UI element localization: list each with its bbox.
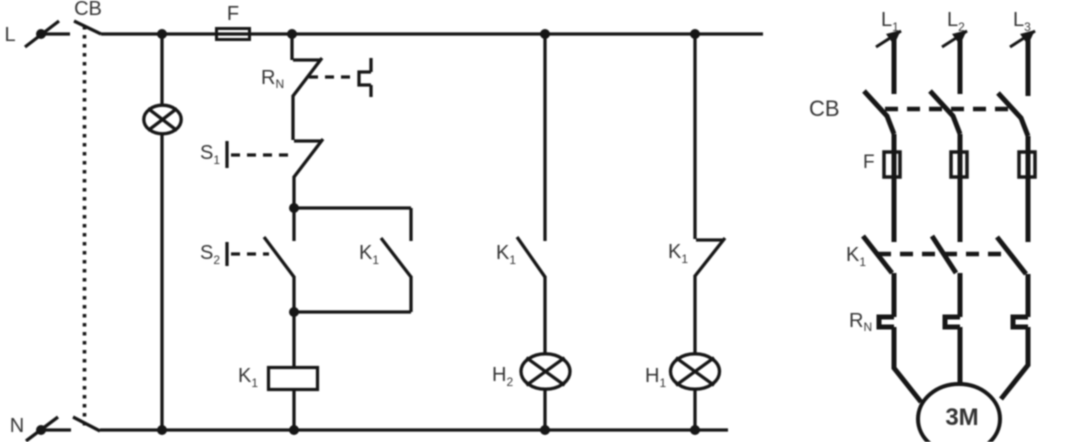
svg-text:L1: L1 <box>881 9 899 34</box>
wire lamp branch lower <box>160 133 163 430</box>
node B junction <box>289 307 299 317</box>
fuse F pole 2 <box>951 152 967 177</box>
lamp H1 <box>671 354 720 389</box>
svg-text:L3: L3 <box>1013 9 1031 34</box>
wire K1 aux upper <box>409 208 412 241</box>
svg-text:CB: CB <box>809 96 840 121</box>
node L terminal <box>25 21 70 47</box>
svg-text:K1: K1 <box>359 242 379 267</box>
wire parallel bottom <box>294 310 411 313</box>
motor 3M <box>918 384 1000 442</box>
svg-text:CB: CB <box>74 0 102 20</box>
mechanical linkage dotted line CB <box>83 26 87 429</box>
thermal element RN pole 1 <box>879 317 894 327</box>
svg-text:RN: RN <box>849 310 872 334</box>
node N terminal <box>26 417 71 441</box>
linkage dashes S2 <box>231 252 269 255</box>
wire pole1 CB to K1 <box>892 134 897 242</box>
svg-text:RN: RN <box>261 67 284 91</box>
svg-text:H2: H2 <box>492 364 513 389</box>
wire pole1 RN to motor <box>894 327 921 402</box>
breaker CB pole 1 blade <box>864 91 894 134</box>
node L2 arrow <box>942 30 967 47</box>
wire top rail L <box>101 32 763 35</box>
contactor K1 pole 2 blade <box>932 236 956 273</box>
wire pole2 CB to K1 <box>958 134 963 242</box>
node L1 arrow <box>876 30 901 47</box>
svg-text:K1: K1 <box>668 241 688 266</box>
wire parallel top <box>294 206 411 209</box>
svg-text:3M: 3M <box>945 404 978 431</box>
contact K1 NO (H2 branch) <box>517 237 545 277</box>
wire between RN and S1 <box>291 95 294 140</box>
lamp (pilot light) <box>144 105 181 134</box>
wire L1 drop <box>892 40 897 94</box>
fuse F pole 3 <box>1019 152 1035 177</box>
wire pole3 K1 to RN <box>1026 274 1031 317</box>
svg-text:K1: K1 <box>846 244 866 269</box>
contact RN thermal NC <box>293 58 322 96</box>
circuit breaker CB (neutral pole) <box>73 417 100 431</box>
svg-text:S2: S2 <box>200 242 220 267</box>
wire H2 mid <box>543 276 546 355</box>
junction dots bottom rail <box>157 425 700 435</box>
lamp H2 <box>521 354 570 389</box>
wire S1 to node A <box>292 176 295 208</box>
wire coil to N rail <box>292 391 295 430</box>
wire pole3 RN to motor <box>1001 327 1028 399</box>
wire pole1 K1 to RN <box>892 273 897 317</box>
contact S2 NO <box>264 237 294 277</box>
breaker CB pole 3 blade <box>998 93 1028 136</box>
svg-text:S1: S1 <box>200 142 220 167</box>
svg-text:H1: H1 <box>645 365 666 390</box>
circuit breaker CB (control pole) <box>74 21 101 34</box>
svg-text:N: N <box>10 415 24 437</box>
wire bottom rail N <box>100 428 728 431</box>
contact K1 holding NO <box>381 238 411 277</box>
wire K1 aux lower <box>409 276 412 312</box>
reset button symbol <box>359 58 371 97</box>
svg-text:L: L <box>4 24 15 46</box>
thermal element RN pole 2 <box>945 317 960 327</box>
wire L3 drop <box>1026 40 1031 96</box>
wire H2 branch upper <box>543 34 546 241</box>
wire S2 lower <box>292 276 295 312</box>
svg-text:F: F <box>863 152 875 173</box>
linkage dashes S1 <box>231 153 295 156</box>
wire H2 lower <box>543 389 546 430</box>
wire L2 drop <box>958 40 963 94</box>
wire main column top <box>290 34 293 60</box>
linkage dashes K1 <box>878 252 1010 257</box>
wire lamp branch upper <box>160 34 163 106</box>
linkage dashes RN reset <box>309 75 356 78</box>
thermal element RN pole 3 <box>1013 317 1028 327</box>
contactor K1 pole 3 blade <box>997 237 1026 274</box>
linkage dashes CB <box>885 107 1012 112</box>
wire node B to coil <box>292 312 295 366</box>
svg-text:F: F <box>227 3 239 25</box>
svg-text:K1: K1 <box>238 365 258 390</box>
wire H1 branch upper <box>693 34 696 239</box>
junction dots top rail <box>157 29 700 39</box>
node L3 arrow <box>1010 30 1035 47</box>
wire S2 upper <box>292 208 295 241</box>
wire pole3 CB to K1 <box>1026 136 1031 242</box>
contact K1 NC (H1 branch) <box>695 238 725 276</box>
node A junction <box>289 203 299 213</box>
contactor K1 pole 1 blade <box>863 236 892 273</box>
pushbutton S1 plunger <box>225 141 228 168</box>
svg-text:K1: K1 <box>496 242 516 267</box>
wire pole2 K1 to RN <box>958 273 963 317</box>
pushbutton S2 plunger <box>225 242 228 266</box>
breaker CB pole 2 blade <box>930 91 960 134</box>
svg-text:L2: L2 <box>947 9 965 34</box>
coil K1 <box>269 368 318 390</box>
wire pole2 RN to motor <box>958 327 963 385</box>
wire H1 mid <box>693 275 696 355</box>
contact S1 NC <box>294 139 323 177</box>
fuse F <box>217 29 250 40</box>
fuse F pole 1 <box>884 152 900 177</box>
wire H1 lower <box>693 389 696 430</box>
